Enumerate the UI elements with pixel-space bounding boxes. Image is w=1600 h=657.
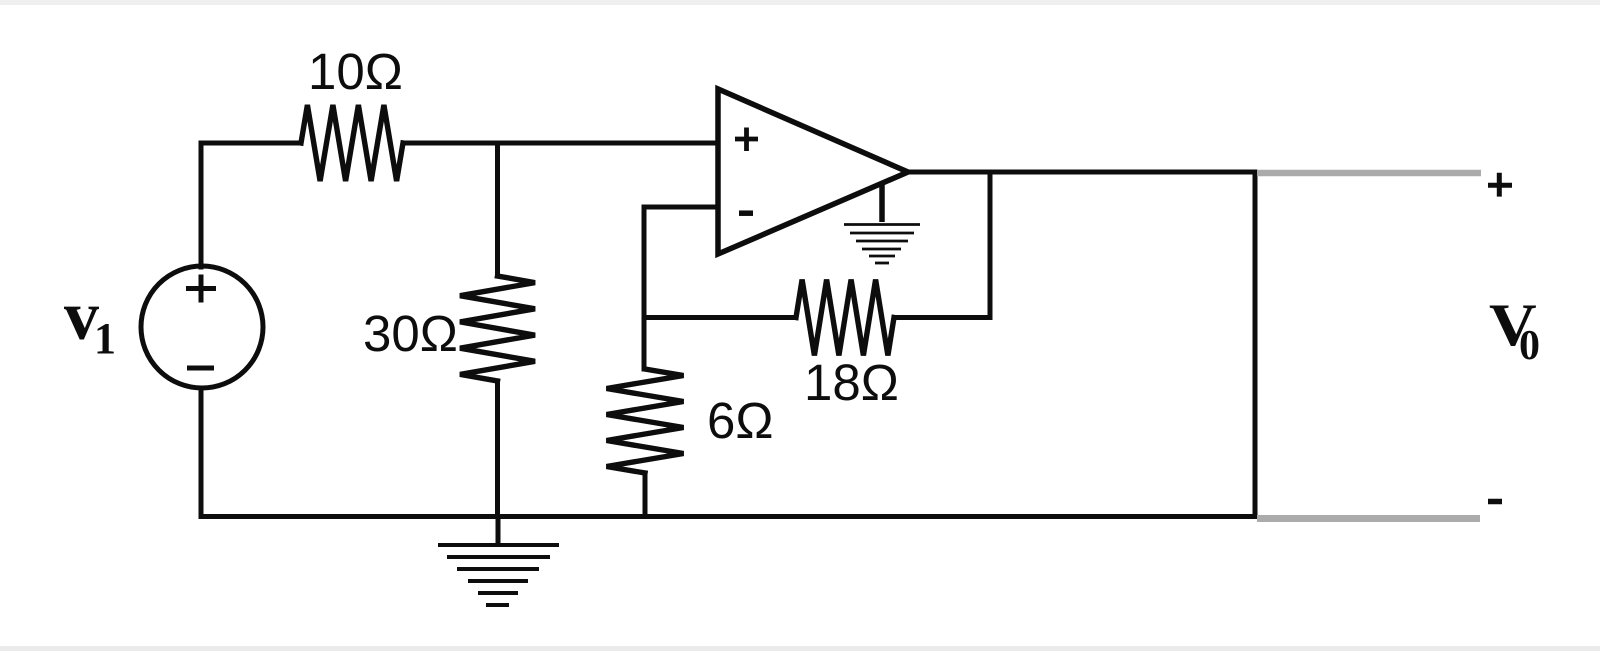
wire output terminal + (gray)	[1257, 170, 1481, 177]
svg-text:18Ω: 18Ω	[804, 354, 899, 411]
wire node A down to 30ohm	[495, 143, 500, 276]
wire op-amp output	[908, 170, 1255, 175]
op-amp minus input mark	[739, 210, 753, 216]
voltage source V1 circle	[141, 266, 263, 388]
svg-text:10Ω: 10Ω	[308, 43, 403, 100]
scan artifact bottom band	[0, 646, 1600, 651]
wire top-left from source to resistor	[201, 143, 301, 267]
scan artifact top band	[0, 0, 1600, 5]
resistor 30ohm	[460, 276, 535, 381]
wire feedback left segment	[644, 315, 796, 320]
svg-text:6Ω: 6Ω	[707, 392, 774, 449]
wire feedback right segment up to output	[894, 172, 990, 318]
resistor 10ohm	[301, 105, 403, 181]
op-amp U1 triangle	[718, 89, 908, 254]
ground symbol op-amp	[844, 184, 920, 263]
label output minus terminal	[1488, 499, 1502, 505]
resistor 6ohm	[607, 369, 684, 473]
wire 6ohm to bottom rail	[643, 473, 648, 517]
minus mark inside source	[187, 366, 214, 371]
label output plus terminal	[1488, 173, 1512, 197]
wire inverting input horizontal	[644, 205, 718, 210]
wire source bottom to ground rail	[201, 388, 1255, 517]
svg-text:30Ω: 30Ω	[363, 305, 458, 362]
svg-text:1: 1	[94, 314, 116, 363]
wire node A to op-amp + input	[403, 141, 718, 146]
wire inverting node vertical down to 6ohm	[642, 207, 647, 369]
plus mark inside source	[186, 275, 216, 303]
wire 30ohm to bottom rail	[495, 381, 500, 517]
svg-text:0: 0	[1519, 323, 1540, 369]
wire output right vertical	[1253, 172, 1258, 517]
wire output terminal - (gray)	[1257, 515, 1480, 522]
ground symbol bottom	[438, 517, 559, 606]
op-amp plus input mark	[735, 128, 758, 152]
resistor 18ohm	[796, 280, 894, 356]
